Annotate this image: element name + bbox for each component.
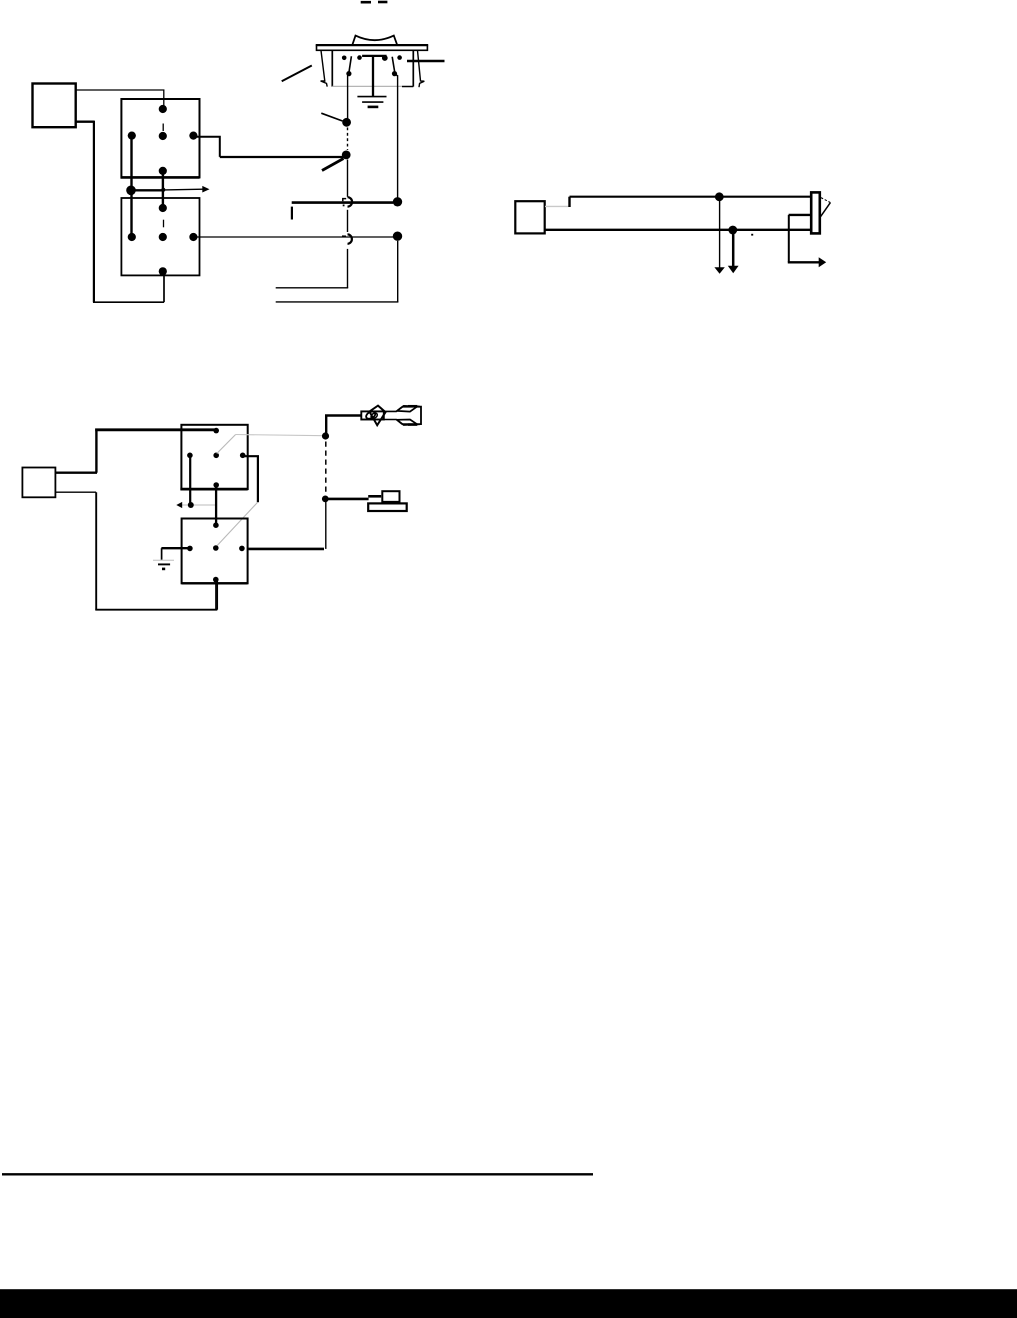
wire from right lower pin down — [397, 75, 399, 197]
wire bold horizontal to right contact dot — [292, 201, 394, 204]
relay K4 — [182, 519, 248, 584]
switch body left edge — [331, 50, 333, 86]
wire bold vertical K1 to K2 left pins — [130, 136, 132, 237]
wire below hop 2 — [347, 249, 349, 288]
wire B3 bottom around to K4 bottom — [56, 491, 96, 493]
relay K1 coil stub — [162, 124, 164, 132]
plug diamond — [369, 406, 385, 426]
wire K3 mid-right over to K4 — [243, 456, 258, 502]
wire center vertical K1 to K2 — [162, 171, 164, 208]
plug tip plate — [811, 192, 820, 233]
wire gray horizontal to node — [236, 435, 325, 436]
switch common T bar — [362, 55, 387, 57]
footnote rule — [2, 1173, 593, 1175]
wire B1 bottom around to K2 bottom pin — [76, 120, 94, 122]
wire right side of switch — [407, 60, 445, 62]
ground — [161, 548, 163, 560]
node dot right upper — [393, 197, 402, 206]
wire thin down with arrow — [719, 201, 721, 268]
wire bottom stub right — [276, 301, 399, 303]
plug tip rect — [361, 411, 384, 419]
rocker switch mounting flange — [317, 45, 428, 50]
node junction dot — [188, 502, 194, 508]
node junction dot — [126, 186, 136, 196]
wire gray diagonal K3 — [217, 435, 236, 454]
arrow to the right — [165, 188, 204, 191]
text remnant (cropped descenders top of page) — [361, 1, 388, 4]
relay K1 pin dots — [128, 105, 198, 175]
ground under switch — [357, 96, 386, 98]
wire between hops — [347, 210, 349, 232]
wire down right — [788, 215, 790, 262]
wire bold to accessory — [325, 498, 368, 501]
switch body right edge — [412, 50, 414, 86]
switch lever right — [392, 57, 395, 73]
wire hop 1 — [348, 197, 353, 206]
wire bold to switch dot — [220, 156, 346, 158]
switch body left clip — [321, 51, 328, 87]
wire B3 top to relay K3 — [56, 472, 97, 474]
plug spiral — [365, 410, 377, 420]
box B3 (power source) — [22, 468, 55, 498]
plug body — [402, 407, 421, 424]
wire center vertical K3 to K4 — [215, 486, 217, 526]
node dot right lower — [393, 232, 402, 241]
node dot top — [715, 192, 724, 201]
switch body bottom edge — [332, 85, 402, 87]
plug tip point — [821, 198, 830, 203]
wire junction bold horizontal — [131, 189, 165, 191]
node dot upper contact — [342, 118, 351, 127]
wire below lower contact — [347, 160, 349, 197]
lighter plug P1 — [361, 406, 421, 426]
node dot bottom — [728, 226, 737, 235]
arrow left gray line — [182, 504, 217, 506]
relay K2 pin dots — [128, 204, 198, 276]
wire bottom bold to plug — [545, 229, 812, 231]
pointer line to switch body — [282, 66, 312, 82]
wire top bold to plug — [570, 196, 812, 198]
switch lever left — [349, 56, 352, 72]
relay K1 — [121, 99, 199, 177]
wire node column lower — [325, 502, 327, 549]
plug neck — [384, 407, 402, 412]
node dot upper — [322, 432, 329, 439]
wire bottom stub left — [276, 287, 349, 289]
box B2 (power source) — [515, 201, 544, 233]
wire step up — [568, 197, 570, 207]
wire plug middle stub — [789, 214, 812, 216]
stub below left end — [291, 207, 293, 220]
wire gray from B2 — [545, 205, 569, 207]
wire bold K3 mid-left down — [189, 456, 191, 505]
dashed wire between contacts — [347, 128, 349, 151]
wire corner up to plug — [326, 416, 361, 435]
switch pin dots — [342, 55, 402, 76]
relay K1 bottom edge bold — [121, 176, 200, 179]
wire gray diagonal into K4 — [216, 503, 257, 547]
relay K2 coil stub — [163, 220, 165, 228]
accessory socket icon — [368, 495, 381, 498]
node dot lower — [322, 496, 329, 503]
switch body right clip — [418, 51, 425, 88]
wire bold down with arrow — [732, 230, 735, 266]
wire dashed between nodes — [325, 442, 327, 493]
node dot lower contact — [342, 151, 351, 160]
relay K4 bottom edge bold — [182, 582, 248, 584]
relay K3 — [181, 425, 247, 489]
pointer line thin to upper contact — [321, 113, 342, 121]
relay K3 pin dots — [187, 428, 245, 488]
relay K2 — [121, 198, 199, 275]
wire hop 2 — [348, 234, 352, 243]
speck — [751, 234, 753, 236]
wire from right lower dot down — [397, 241, 399, 302]
wire B1 top to relay K1 coil — [76, 90, 164, 106]
wire K2 mid-right to switch lower contact — [193, 236, 393, 238]
relay K4 pin dots — [187, 522, 245, 582]
pointer lever bold to lower contact — [322, 159, 344, 171]
relay K3 bottom edge bold — [180, 488, 247, 491]
bottom black bar — [0, 1289, 1017, 1318]
wire ground to K4 mid-left — [161, 547, 188, 549]
wire to right arrow — [788, 261, 819, 263]
wire from left lower pin down — [347, 76, 349, 119]
rocker actuator top — [352, 36, 397, 45]
wire K4 mid-right bold to node column — [248, 548, 324, 551]
plug bottom wing — [397, 420, 417, 426]
plug top wing — [397, 406, 417, 412]
node small dot on center wire — [161, 188, 165, 192]
box B1 (power source) — [33, 84, 76, 128]
wire K4 bottom pin down — [215, 582, 217, 609]
wire K1 mid-right to switch — [193, 137, 219, 157]
